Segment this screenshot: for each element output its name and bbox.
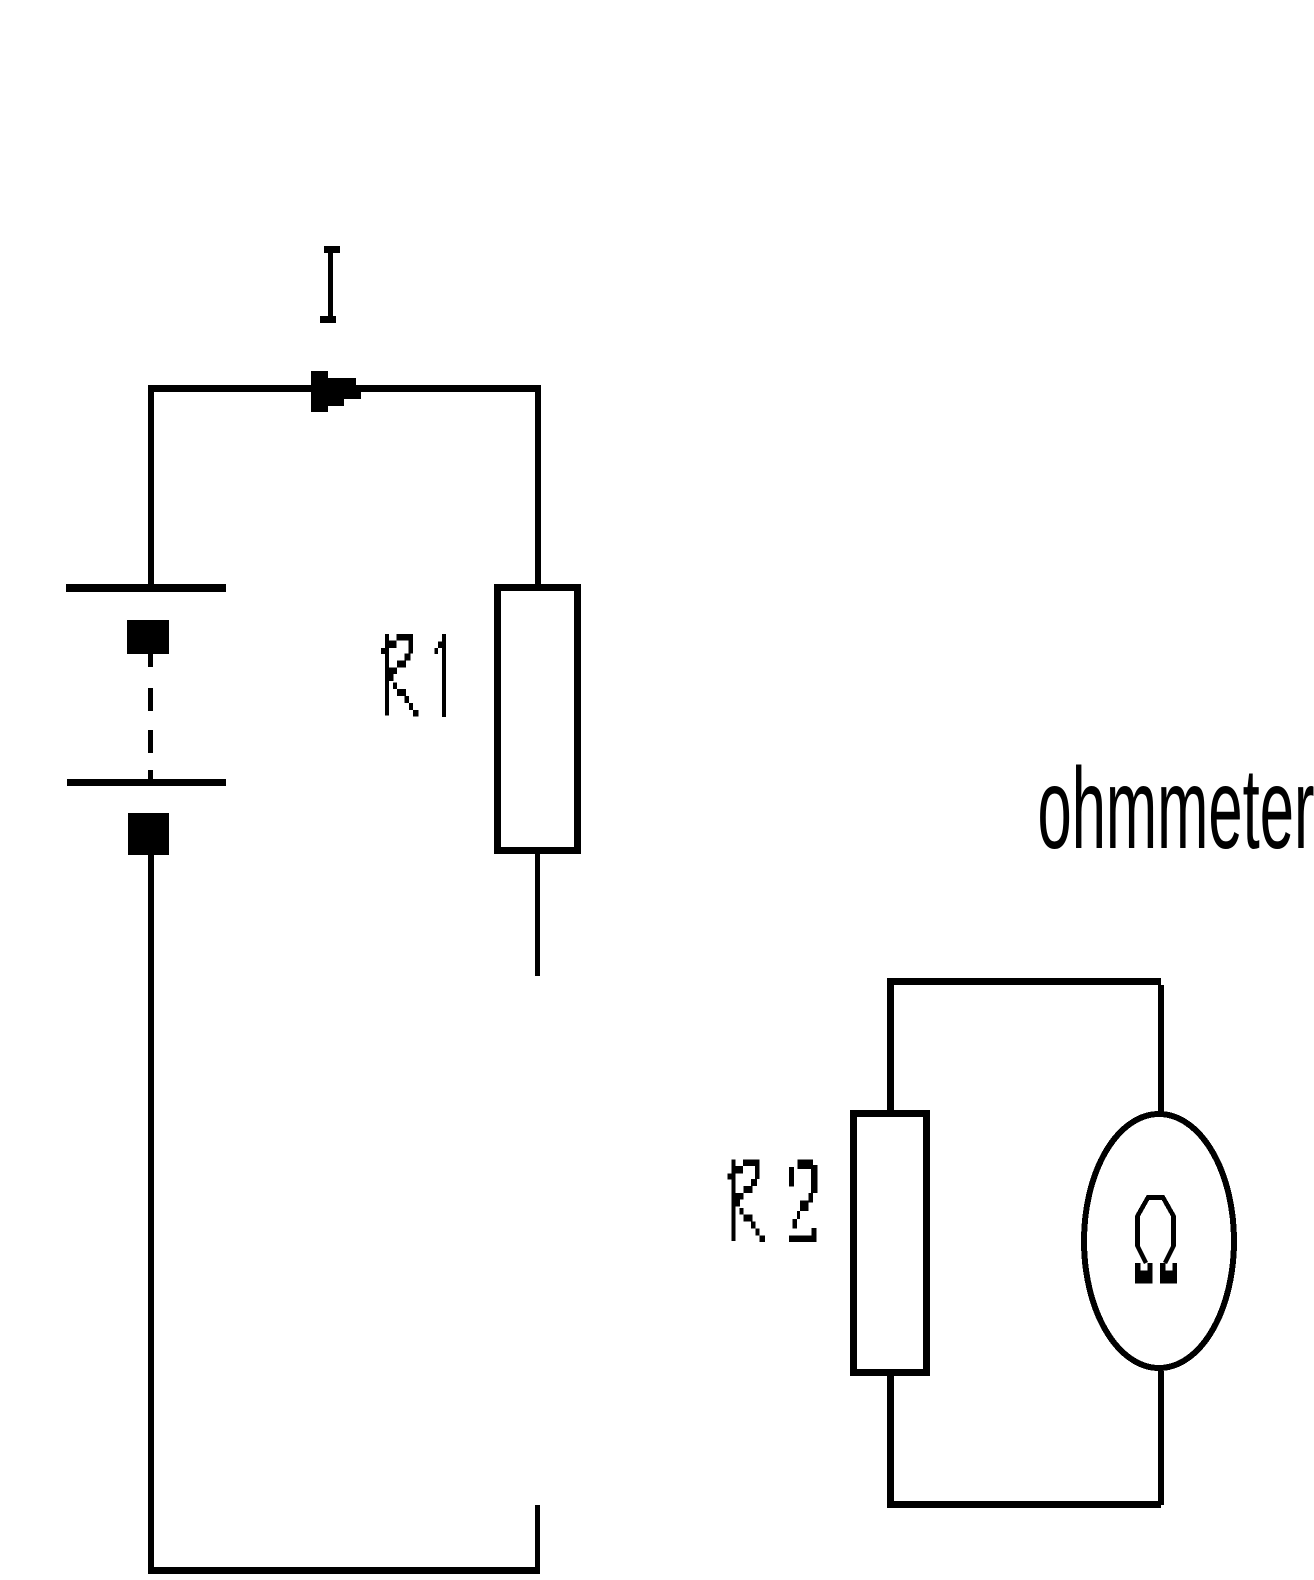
resistor R1 <box>498 588 578 851</box>
ohmmeter circle <box>1084 1114 1234 1368</box>
wire bottom horizontal <box>148 1567 540 1574</box>
wire left vertical (to R2 top) <box>887 985 894 1111</box>
wire right vertical bottom (from ohmmeter) <box>1158 1371 1164 1505</box>
battery plate 2 short thick (square) <box>128 813 169 855</box>
label R2 <box>728 1159 818 1242</box>
battery plate 1 short thick (square) <box>127 620 169 654</box>
battery plate 2 (long) <box>67 779 226 786</box>
label I (current) <box>320 246 340 323</box>
current arrow <box>311 371 361 412</box>
resistor R2 <box>854 1114 927 1373</box>
battery plate 1 (long) <box>66 584 226 592</box>
wire top horizontal (R2 to ohmmeter) <box>887 978 1161 985</box>
wire R2 bottom <box>887 1376 894 1505</box>
label R1 <box>381 634 446 717</box>
wire right vertical top (to ohmmeter) <box>1158 985 1164 1112</box>
svg-text:ohmmeter: ohmmeter <box>1038 745 1314 873</box>
wire top horizontal (battery to R1) <box>148 385 541 392</box>
wire stub bottom right (open end) <box>535 1505 540 1567</box>
wire bottom horizontal (R2 to ohmmeter) <box>887 1501 1161 1508</box>
ohm symbol <box>1135 1198 1177 1284</box>
wire R1 bottom stub (open end) <box>535 854 540 976</box>
battery dashed link (cells omitted) <box>148 654 153 779</box>
wire left vertical upper <box>148 385 154 591</box>
wire right vertical (top wire to R1) <box>535 385 541 584</box>
wire left vertical long (battery minus to bottom) <box>148 855 154 1570</box>
